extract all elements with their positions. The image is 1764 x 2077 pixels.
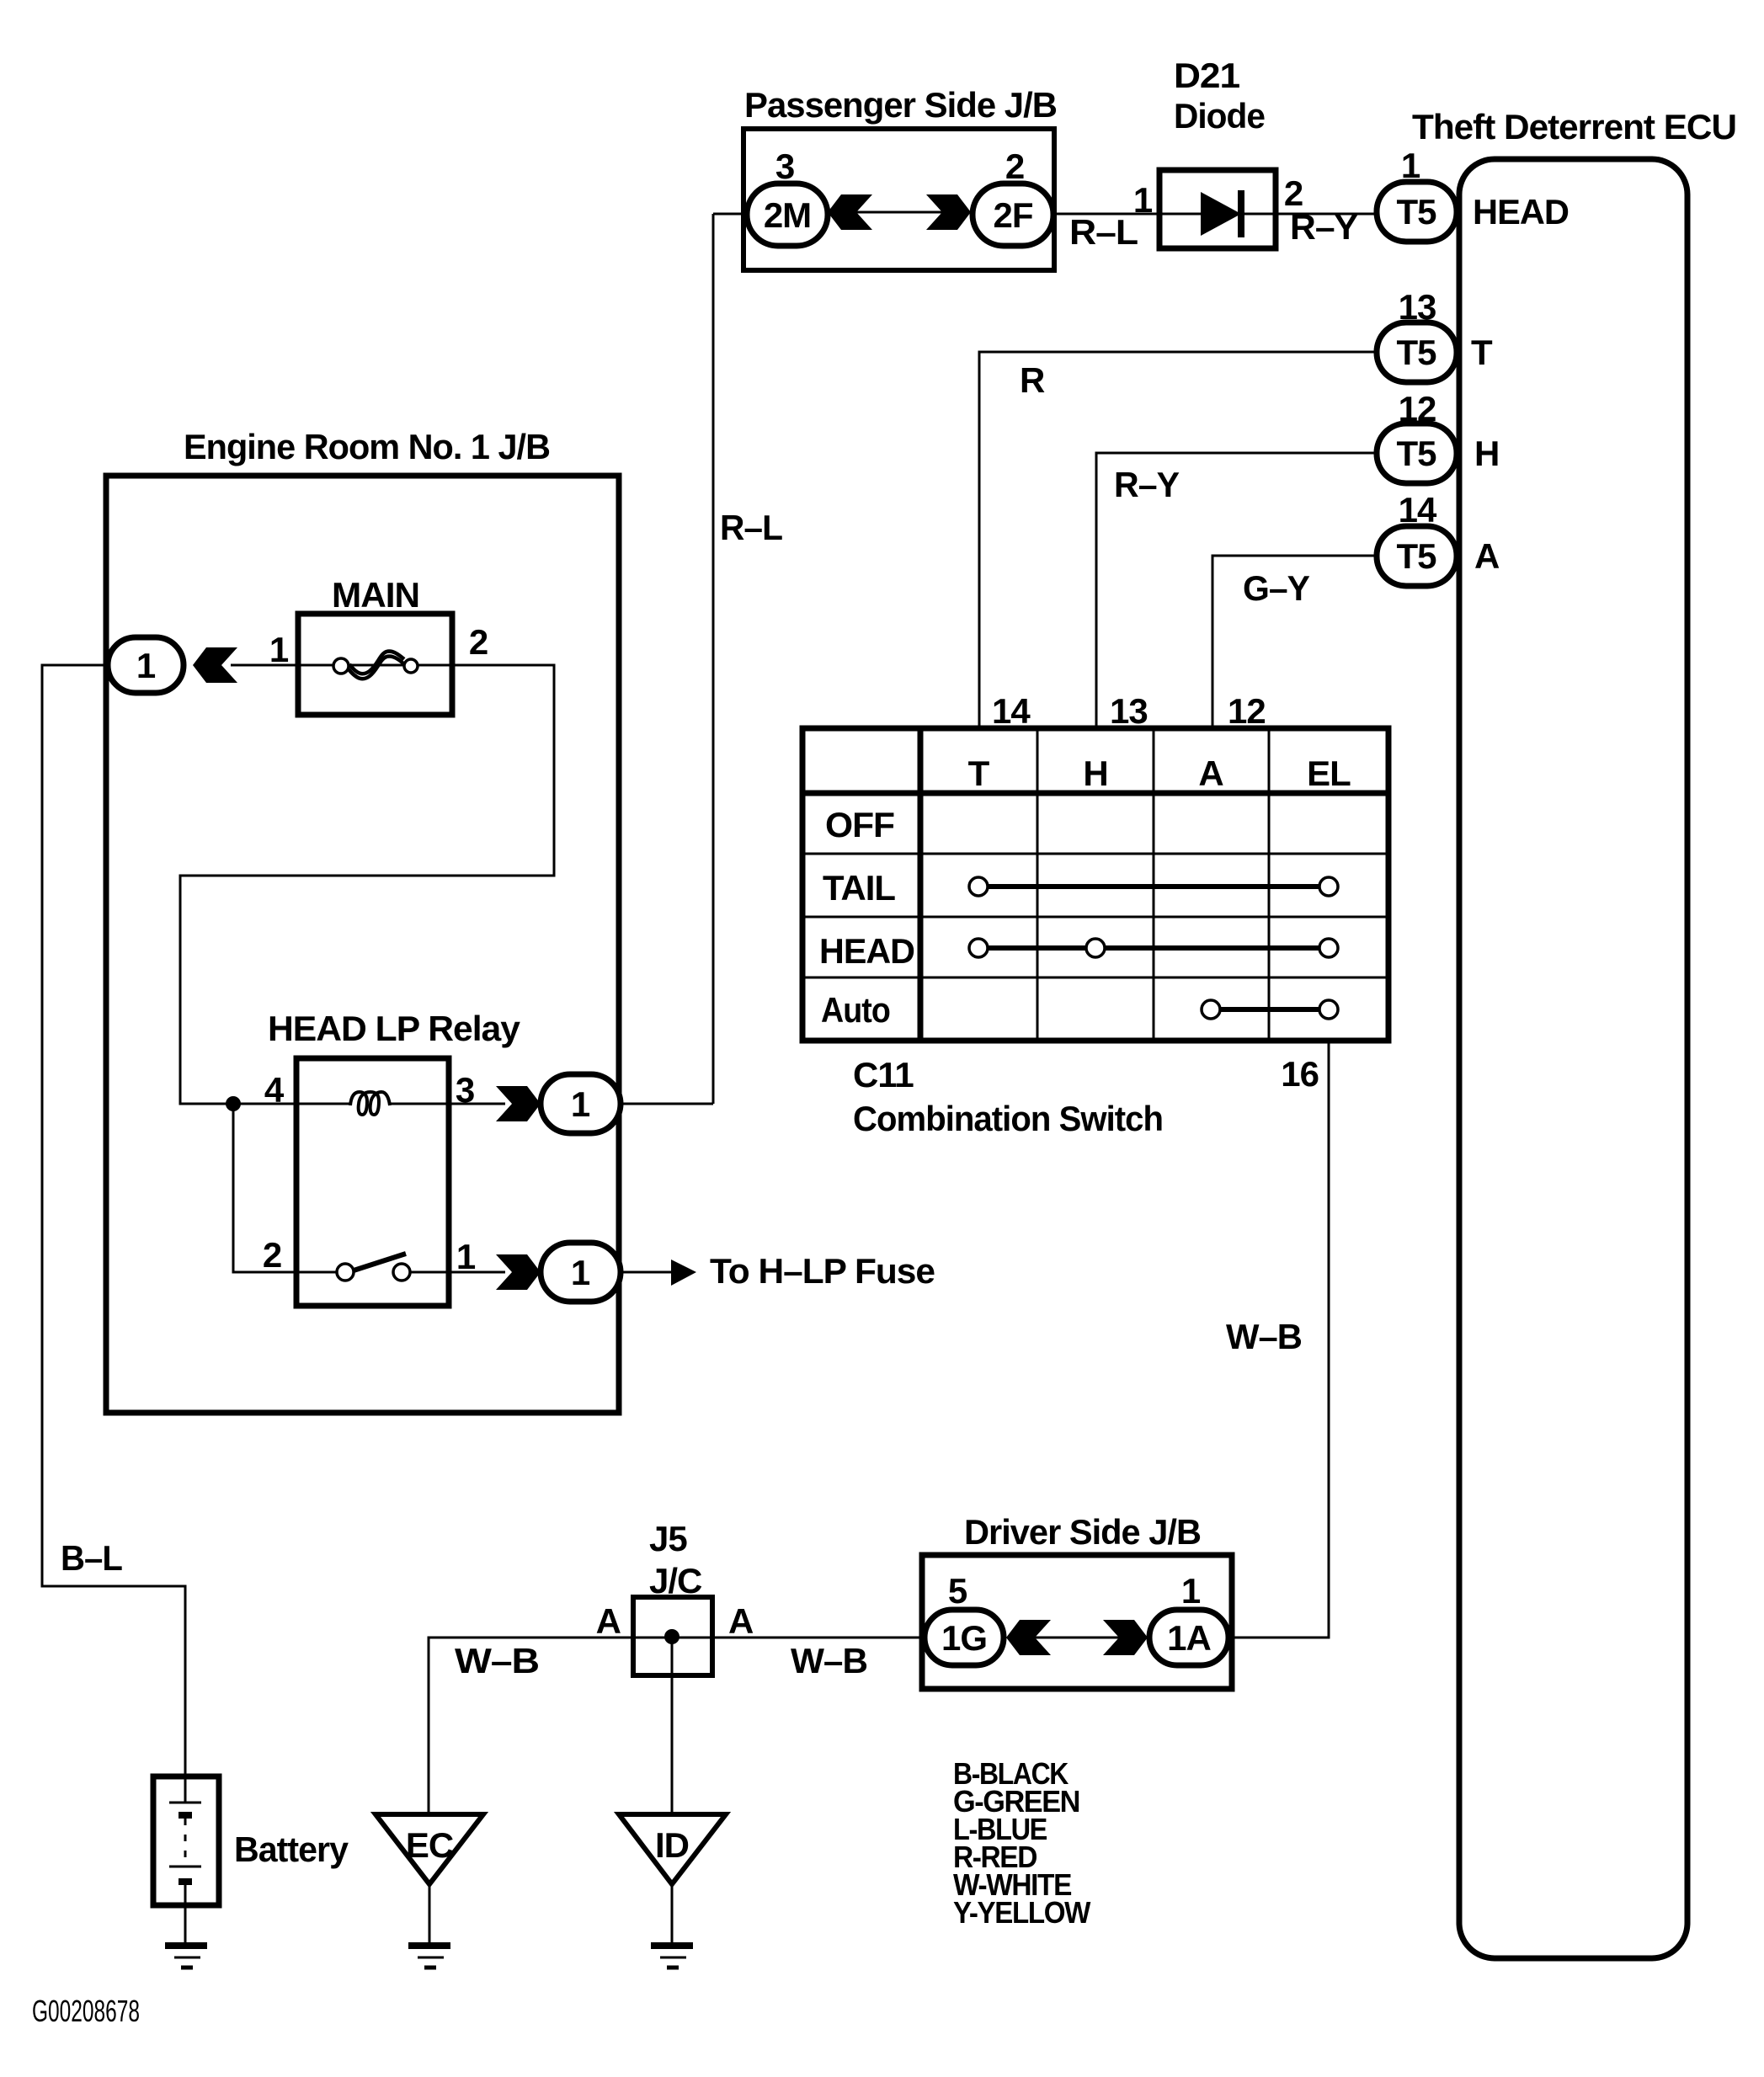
fuse MAIN element symbol [298, 652, 452, 679]
Theft Deterrent ECU body [1459, 159, 1687, 1958]
svg-text:HEAD: HEAD [1473, 192, 1569, 232]
battery box [153, 1776, 219, 1905]
svg-text:W–B: W–B [455, 1641, 539, 1680]
svg-text:G00208678: G00208678 [32, 1994, 140, 2028]
svg-text:2F: 2F [993, 195, 1032, 235]
battery internal symbol [169, 1773, 201, 1943]
connector arrow into 2F (right-pointing chevron) [926, 194, 971, 230]
svg-text:2: 2 [263, 1235, 281, 1275]
wire R-L riser from passenger J/B down to relay terminal [712, 214, 715, 1104]
svg-text:1: 1 [1133, 180, 1153, 220]
wire 2F to diode, R-L [1053, 213, 1159, 216]
junction block: Driver Side J/B box [922, 1555, 1232, 1689]
connector arrow from relay pin 3 (right-pointing chevron) [449, 1086, 541, 1121]
svg-text:4: 4 [264, 1070, 285, 1110]
svg-text:13: 13 [1110, 691, 1148, 731]
svg-text:Engine Room No. 1 J/B: Engine Room No. 1 J/B [184, 427, 550, 466]
TAIL position contact bar T to EL [969, 877, 1338, 896]
svg-text:1: 1 [571, 1084, 590, 1124]
svg-text:Auto: Auto [821, 990, 890, 1030]
wire between 2M and 2F [856, 211, 942, 214]
connector terminal 1 at relay pin 1 [541, 1243, 621, 1302]
svg-text:1: 1 [456, 1237, 476, 1276]
ground symbol below battery [165, 1946, 207, 1968]
connector terminal 1A [1149, 1610, 1228, 1665]
svg-text:3: 3 [775, 146, 794, 186]
fuse MAIN box [298, 614, 452, 715]
svg-text:12: 12 [1228, 691, 1266, 731]
svg-text:Combination Switch: Combination Switch [853, 1099, 1163, 1138]
svg-text:J/C: J/C [649, 1561, 702, 1600]
svg-text:Y-YELLOW: Y-YELLOW [953, 1895, 1090, 1930]
wire EC apex to ground [429, 1884, 431, 1943]
svg-text:T: T [968, 754, 990, 793]
svg-text:H: H [1083, 754, 1107, 793]
svg-text:2M: 2M [764, 195, 811, 235]
node junction dot on relay pin 4 wire [226, 1096, 241, 1111]
connector arrow into 1G (left-pointing chevron) [1006, 1620, 1051, 1655]
junction block: Engine Room No. 1 J/B box [106, 476, 619, 1413]
svg-text:OFF: OFF [825, 805, 894, 844]
ground terminal ID triangle [619, 1814, 726, 1884]
svg-text:Driver Side J/B: Driver Side J/B [964, 1512, 1201, 1552]
relay coil symbol [296, 1092, 449, 1115]
svg-text:14: 14 [992, 691, 1031, 731]
svg-text:W–B: W–B [791, 1641, 867, 1680]
combination switch table row dividers [802, 854, 1388, 977]
svg-text:R–Y: R–Y [1114, 465, 1180, 504]
svg-text:T5: T5 [1396, 192, 1436, 232]
connector terminal T5 pin 13 (T) [1377, 322, 1457, 382]
connector terminal 1G [925, 1610, 1004, 1665]
svg-text:2: 2 [469, 622, 488, 662]
relay HEAD LP box [296, 1058, 449, 1306]
HEAD position contact bar T to EL through H [969, 939, 1338, 957]
combination switch table thick column divider [918, 728, 924, 1041]
svg-text:G–Y: G–Y [1243, 568, 1310, 608]
svg-text:1: 1 [269, 630, 289, 669]
svg-text:1A: 1A [1167, 1618, 1211, 1658]
svg-text:H: H [1474, 434, 1499, 473]
wire junction down to relay pin 2 [233, 1104, 296, 1272]
connector terminal 1 of engine room J/B [108, 637, 184, 693]
ground symbol below EC [408, 1946, 450, 1968]
svg-text:R: R [1020, 360, 1045, 400]
connector arrow into terminal 1 (left-pointing chevron) [193, 647, 237, 683]
wire ID apex to ground [671, 1884, 674, 1943]
svg-text:ID: ID [655, 1825, 689, 1865]
node junction dot in J/C [664, 1629, 679, 1644]
svg-text:5: 5 [948, 1571, 967, 1611]
svg-text:1: 1 [136, 646, 156, 685]
svg-text:J5: J5 [649, 1519, 687, 1558]
svg-text:1: 1 [1181, 1571, 1201, 1611]
ground terminal EC triangle [376, 1814, 483, 1884]
combination switch table header divider [802, 791, 1388, 796]
connector arrow into 2M (left-pointing chevron) [828, 194, 872, 230]
svg-text:1: 1 [571, 1253, 590, 1292]
svg-text:R–L: R–L [1069, 212, 1138, 252]
connector terminal 2F [973, 184, 1053, 246]
diode D21 symbol [1159, 190, 1276, 237]
svg-text:A: A [1474, 536, 1500, 576]
svg-text:Passenger Side J/B: Passenger Side J/B [744, 85, 1057, 125]
svg-text:1G: 1G [941, 1618, 987, 1658]
svg-text:MAIN: MAIN [332, 575, 419, 615]
ground symbol below ID [651, 1946, 693, 1968]
svg-text:C11: C11 [853, 1055, 914, 1094]
svg-text:T5: T5 [1396, 434, 1436, 473]
svg-text:2: 2 [1005, 146, 1024, 186]
svg-text:A: A [728, 1601, 754, 1641]
connector terminal 2M [747, 184, 828, 246]
wire color legend [953, 1756, 1090, 1930]
combination switch table thin column dividers [1037, 728, 1269, 1041]
svg-text:Diode: Diode [1174, 96, 1265, 136]
wire terminal 1 to R-L riser [621, 1103, 713, 1105]
wire to H-LP fuse with arrow [621, 1260, 696, 1286]
wire diode to T5 HEAD terminal [1276, 213, 1378, 216]
svg-text:Battery: Battery [234, 1829, 349, 1869]
svg-text:A: A [596, 1601, 621, 1641]
svg-text:T5: T5 [1396, 333, 1436, 372]
wire B-L from engine room J/B terminal 1 to battery [42, 665, 185, 1773]
svg-text:HEAD LP Relay: HEAD LP Relay [268, 1009, 521, 1048]
connector arrow into 1A (right-pointing chevron) [1103, 1620, 1148, 1655]
wire R-Y from T5 H to combination switch column H [1096, 453, 1378, 729]
wire arrow to MAIN fuse [231, 664, 298, 667]
svg-text:T: T [1471, 333, 1493, 372]
wire W-B from combination switch pin 16 to driver side J/B [1228, 1041, 1329, 1638]
svg-text:TAIL: TAIL [823, 868, 895, 908]
wire W-B from EC up and right through J/C to driver side J/B [429, 1638, 925, 1814]
wire G-Y from T5 A to combination switch column A [1212, 556, 1378, 729]
combination switch C11 table outer box [802, 728, 1388, 1041]
svg-text:16: 16 [1281, 1054, 1319, 1094]
connector terminal T5 pin 12 (H) [1377, 423, 1457, 483]
svg-text:W–B: W–B [1226, 1317, 1302, 1356]
connector terminal T5 pin 1 (HEAD) [1377, 182, 1457, 242]
svg-text:T5: T5 [1396, 536, 1436, 576]
svg-text:HEAD: HEAD [819, 931, 914, 971]
svg-text:EC: EC [406, 1825, 454, 1865]
svg-text:EL: EL [1307, 754, 1351, 793]
diode D21 box [1159, 170, 1276, 248]
wire between 1G and 1A [1035, 1637, 1119, 1639]
svg-text:A: A [1198, 754, 1223, 793]
connector arrow from relay pin 1 (right-pointing chevron) [449, 1254, 541, 1290]
relay switch contact symbol [296, 1254, 449, 1281]
junction block: Passenger Side J/B box [743, 129, 1054, 270]
svg-text:B–L: B–L [61, 1538, 122, 1578]
wire from MAIN pin 2 down and around to relay pin 4 [180, 665, 554, 1104]
wire R from T5 T to combination switch column T [979, 352, 1378, 729]
svg-text:Theft Deterrent ECU: Theft Deterrent ECU [1412, 107, 1736, 146]
svg-text:R–L: R–L [720, 508, 782, 547]
junction connector J5 J/C box [633, 1597, 712, 1675]
connector terminal T5 pin 14 (A) [1377, 526, 1457, 586]
connector terminal 1 at relay pin 3 [541, 1074, 621, 1133]
Auto position contact bar A to EL [1202, 1000, 1338, 1019]
wire R-L from 2M to riser [713, 213, 747, 216]
wire from J/C junction down to ID ground [671, 1637, 674, 1814]
svg-text:To H–LP Fuse: To H–LP Fuse [710, 1251, 935, 1291]
svg-text:D21: D21 [1174, 56, 1240, 95]
